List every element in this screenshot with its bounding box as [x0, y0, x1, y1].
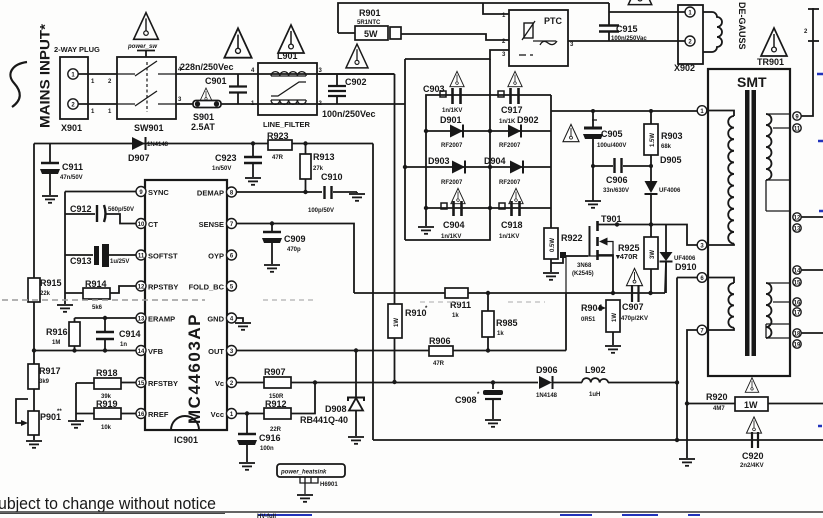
svg-text:R922: R922 [561, 233, 583, 243]
capacitor C920 2n2/4KV [740, 417, 764, 469]
capacitor C903 [423, 71, 464, 114]
warning triangle power_sw [134, 13, 159, 40]
resistor R910 1W [388, 304, 428, 384]
svg-text:D904: D904 [484, 156, 506, 166]
wire sec pin 14 stub [801, 269, 823, 271]
svg-text:HV-full: HV-full [257, 514, 276, 518]
svg-text:▾470R: ▾470R [615, 252, 638, 261]
node PTC pin1 drop [483, 3, 509, 14]
svg-text:3: 3 [570, 42, 574, 48]
transformer SMT box [708, 69, 790, 376]
svg-text:GND: GND [207, 315, 224, 324]
main current-sense bus [354, 292, 665, 294]
svg-text:C912: C912 [70, 204, 92, 214]
diode D903 [428, 156, 465, 186]
svg-text:100u/400V: 100u/400V [597, 143, 626, 149]
transformer pin 7 [697, 325, 707, 335]
ground (D908) [348, 437, 364, 444]
transformer aux winding [706, 278, 734, 331]
svg-text:RPSTBY: RPSTBY [148, 283, 178, 292]
svg-text:Vc: Vc [215, 379, 224, 388]
wire SW901 pin3 neutral [176, 103, 405, 105]
svg-text:SMT: SMT [737, 74, 767, 90]
svg-text:1n/1KV: 1n/1KV [441, 234, 461, 240]
de-gauss coil [703, 2, 747, 52]
diode D910 UF4006 [660, 225, 697, 294]
wire pin6 down [677, 277, 697, 279]
ground (C909) [264, 265, 280, 272]
svg-text:3W: 3W [650, 250, 656, 259]
svg-text:*: * [425, 306, 428, 312]
svg-text:DEMAP: DEMAP [197, 189, 224, 198]
transformer secondary winding A [766, 114, 790, 211]
capacitor C917 [498, 71, 523, 125]
svg-text:LINE_FILTER: LINE_FILTER [263, 120, 311, 129]
svg-text:47R: 47R [433, 361, 445, 367]
warning triangle (top, near X902) [628, 0, 651, 5]
transformer secondary winding B [766, 283, 790, 338]
svg-text:power_sw: power_sw [127, 44, 157, 50]
mains squiggle [10, 62, 27, 107]
resistor R925 470R 3W [615, 237, 658, 293]
capacitor C909 [262, 221, 306, 264]
svg-text:1k: 1k [452, 313, 459, 319]
svg-text:R913: R913 [313, 152, 335, 162]
svg-text:SOFTST: SOFTST [148, 252, 178, 261]
svg-text:5W: 5W [364, 29, 378, 39]
line filter L901 [251, 63, 323, 129]
svg-text:10k: 10k [101, 425, 112, 431]
svg-text:1n/1K: 1n/1K [499, 119, 516, 125]
svg-text:2-WAY PLUG: 2-WAY PLUG [54, 45, 100, 54]
wire SW901 pin4 live [176, 73, 395, 75]
connector X901 [60, 57, 88, 133]
diode D905 UF4006 [645, 155, 682, 237]
svg-text:R985: R985 [496, 318, 518, 328]
warning triangle C901 [224, 28, 251, 57]
svg-text:C923: C923 [215, 153, 237, 163]
svg-text:0R51: 0R51 [581, 317, 596, 323]
top rail to PTC [338, 3, 609, 33]
svg-text:SENSE: SENSE [199, 220, 224, 229]
svg-text:470p/2KV: 470p/2KV [621, 316, 648, 322]
svg-text:1k: 1k [497, 331, 504, 337]
svg-text:100p/50V: 100p/50V [308, 208, 334, 214]
svg-text:SYNC: SYNC [148, 188, 169, 197]
svg-text:18: 18 [794, 332, 801, 338]
wire DEMAG [237, 191, 323, 193]
svg-text:1u/25V: 1u/25V [110, 259, 129, 265]
svg-text:C908: C908 [455, 395, 477, 405]
svg-text:C918: C918 [501, 220, 523, 230]
svg-text:D905: D905 [660, 155, 682, 165]
svg-text:C903: C903 [423, 84, 445, 94]
wire diode row 1 [426, 130, 551, 132]
svg-text:RREF: RREF [148, 410, 169, 419]
svg-text:L902: L902 [585, 365, 606, 375]
svg-text:RF2007: RF2007 [499, 180, 521, 186]
svg-text:228n/250Vec: 228n/250Vec [180, 62, 234, 72]
svg-text:C902: C902 [345, 77, 367, 87]
wire SENSE to bus [237, 224, 355, 294]
svg-text:RF2007: RF2007 [441, 180, 463, 186]
transformer pin 3 [697, 240, 707, 250]
svg-text:14: 14 [794, 269, 801, 275]
svg-text:1M: 1M [52, 340, 60, 346]
svg-text:11: 11 [138, 254, 145, 260]
svg-text:L901: L901 [277, 51, 298, 61]
svg-text:R903: R903 [661, 131, 683, 141]
thermistor PTC [502, 10, 574, 66]
capacitor C923 [212, 141, 262, 177]
wire neutral vertical x405 [404, 59, 406, 240]
warning triangle L901 [278, 25, 304, 53]
wire VFB [34, 350, 137, 352]
wire R922 gate tap [551, 256, 588, 263]
svg-text:SW901: SW901 [134, 123, 164, 133]
wire X901 pin1 to SW901 [78, 73, 117, 75]
resistor R985 1k [482, 293, 518, 351]
connector X902 [674, 5, 703, 73]
svg-text:H6901: H6901 [320, 482, 338, 488]
svg-text:1.5W: 1.5W [650, 133, 656, 147]
diode D902 [499, 115, 539, 149]
svg-text:68k: 68k [661, 144, 672, 150]
svg-text:C914: C914 [119, 329, 141, 339]
resistor R916 1M [46, 318, 80, 351]
ground (C923) [245, 178, 261, 185]
svg-text:C906: C906 [606, 175, 628, 185]
wire T901 drain to transformer pin3 [617, 225, 698, 246]
svg-text:R915: R915 [40, 278, 62, 288]
wire SYNC [65, 191, 137, 193]
svg-text:12: 12 [794, 216, 801, 222]
svg-text:R917: R917 [39, 366, 61, 376]
ground (bridge) [418, 208, 434, 234]
svg-text:IC901: IC901 [174, 435, 198, 445]
svg-text:5R1NTC: 5R1NTC [357, 20, 381, 26]
svg-text:MAINS INPUT*: MAINS INPUT* [38, 23, 53, 128]
svg-text:C909: C909 [284, 234, 306, 244]
svg-text:22k: 22k [40, 291, 51, 297]
svg-text:10: 10 [138, 222, 145, 228]
svg-text:OUT: OUT [208, 347, 224, 356]
ground (heatsink) [297, 495, 313, 502]
svg-text:C913: C913 [70, 256, 92, 266]
transformer pin 1 [697, 106, 707, 116]
svg-text:C901: C901 [205, 76, 227, 86]
svg-text:MC44603AP: MC44603AP [185, 314, 204, 424]
wire R901 to PTC pin2 [401, 34, 509, 40]
svg-text:100n/250Vec: 100n/250Vec [322, 109, 376, 119]
resistor R907 150R [264, 367, 291, 400]
svg-text:R906: R906 [429, 336, 451, 346]
svg-text:CT: CT [148, 220, 158, 229]
svg-text:(K2545): (K2545) [572, 271, 594, 277]
capacitor C918 [499, 188, 523, 240]
svg-text:3N68: 3N68 [577, 263, 592, 269]
wire X901 pin2 to SW901 [78, 103, 117, 105]
svg-text:*: * [477, 392, 480, 398]
scan artifact dashed line [2, 299, 205, 301]
capacitor C911 [40, 144, 83, 196]
svg-text:C904: C904 [443, 220, 465, 230]
svg-text:D901: D901 [440, 115, 462, 125]
capacitor C906 [591, 158, 653, 194]
capacitor C901 [205, 74, 247, 104]
transformer primary winding [706, 111, 734, 246]
blue margin marks [817, 74, 823, 426]
capacitor C910 [308, 172, 357, 214]
wire OUT [237, 350, 567, 352]
bridge box top edge [426, 95, 551, 208]
transformer pin 6 [697, 273, 707, 283]
svg-text:1n/1KV: 1n/1KV [499, 234, 519, 240]
svg-text:5k6: 5k6 [92, 305, 103, 311]
ground (C908) [485, 420, 501, 427]
wire R906 to 3N68 box [565, 293, 567, 351]
resistor R911 1k [445, 288, 471, 319]
svg-text:RF2007: RF2007 [499, 143, 521, 149]
svg-text:ERAMP: ERAMP [148, 315, 175, 324]
capacitor C905 [583, 111, 626, 201]
resistor R920 4M7 1W [687, 378, 823, 412]
svg-text:C915: C915 [616, 24, 638, 34]
svg-text:UF4006: UF4006 [659, 188, 681, 194]
svg-text:12: 12 [138, 285, 145, 291]
svg-text:1n/1KV: 1n/1KV [442, 108, 462, 114]
ground (C916) [239, 463, 255, 470]
capacitor C913 1u/25V [65, 244, 137, 267]
svg-text:R916: R916 [46, 327, 68, 337]
svg-text:1W: 1W [744, 400, 758, 410]
svg-text:2: 2 [108, 79, 112, 85]
resistor R903 68k 1.5W [644, 111, 683, 155]
svg-text:C917: C917 [501, 105, 523, 115]
capacitor C916 100n [237, 411, 281, 462]
resistor R913 27k [300, 141, 335, 192]
ground (C911) [42, 196, 58, 203]
svg-text:Vcc: Vcc [211, 410, 224, 419]
resistor R906 47R [429, 336, 453, 367]
svg-text:100n/250Vac: 100n/250Vac [611, 36, 647, 42]
svg-text:RFSTBY: RFSTBY [148, 379, 178, 388]
svg-text:R918: R918 [96, 368, 118, 378]
svg-text:3: 3 [502, 52, 506, 58]
diode D906 1N4148 [536, 365, 558, 399]
capacitor C915 [599, 3, 647, 42]
svg-text:C911: C911 [62, 162, 83, 172]
wire Vc supply rail [237, 382, 265, 384]
svg-text:C907: C907 [622, 302, 644, 312]
wire sec pin to top connector [801, 8, 813, 116]
svg-text:T901: T901 [601, 214, 622, 224]
svg-text:D903: D903 [428, 156, 450, 166]
svg-text:16: 16 [794, 301, 801, 307]
resistor R912 22R [237, 380, 318, 433]
svg-text:power_heatsink: power_heatsink [280, 470, 327, 476]
svg-text:R907: R907 [264, 367, 286, 377]
svg-text:100n: 100n [260, 446, 274, 452]
box around 3N68 K2545 [566, 256, 613, 293]
bottom border line [0, 511, 823, 513]
svg-text:3k9: 3k9 [39, 379, 50, 385]
IC901 MC44603AP [136, 180, 237, 445]
svg-text:47R: 47R [272, 155, 284, 161]
svg-text:RF2007: RF2007 [441, 143, 463, 149]
svg-text:1W: 1W [394, 318, 400, 327]
svg-text:R912: R912 [265, 399, 287, 409]
warning triangle C907 [626, 268, 642, 285]
ground (IC GND pin) [235, 318, 251, 330]
wire sec pin 12 stub [801, 216, 823, 218]
ground rail (R918/R919) [75, 383, 77, 420]
bridge bottom edge [405, 59, 490, 240]
svg-text:1n/50V: 1n/50V [212, 166, 231, 172]
wire D907 line [34, 143, 373, 145]
wire pin7 down to ground [687, 330, 697, 458]
fuse S901 [191, 88, 221, 132]
wire line filter pin3 [317, 73, 395, 75]
svg-text:14: 14 [138, 349, 145, 355]
svg-text:D907: D907 [128, 153, 150, 163]
svg-text:D910: D910 [675, 262, 697, 272]
wire cap bus [426, 207, 551, 209]
svg-text:1N4148: 1N4148 [147, 142, 169, 148]
svg-text:19: 19 [794, 343, 801, 349]
svg-text:R914: R914 [85, 279, 107, 289]
wire DC+ rail to transformer pin1 [551, 110, 698, 112]
heatsink label power_heatsink [277, 464, 345, 494]
ground (R922) [543, 273, 559, 280]
svg-text:DE-GAUSS: DE-GAUSS [737, 2, 747, 50]
resistor R915 22k [28, 278, 62, 366]
svg-text:OYP: OYP [208, 252, 224, 261]
svg-text:ubject to change without notic: ubject to change without notice [0, 494, 216, 513]
svg-text:D908: D908 [325, 404, 347, 414]
ground (pin7 rail) [679, 459, 695, 466]
resistor R918 39k [76, 368, 137, 400]
switch SW901 [117, 51, 176, 134]
svg-text:1: 1 [108, 109, 112, 115]
svg-text:C916: C916 [259, 433, 281, 443]
svg-text:1n: 1n [120, 342, 127, 348]
svg-text:1N4148: 1N4148 [536, 393, 558, 399]
svg-text:C910: C910 [321, 172, 343, 182]
svg-text:PTC: PTC [544, 16, 563, 26]
diode D904 [484, 156, 523, 186]
svg-text:S901: S901 [193, 112, 214, 122]
ground rail x65 [64, 192, 66, 294]
svg-text:4M7: 4M7 [713, 406, 725, 412]
bridge right edge [550, 95, 552, 228]
resistor R914 5k6 [65, 279, 137, 311]
svg-text:VFB: VFB [148, 347, 164, 356]
transformer right pins [793, 112, 801, 349]
svg-text:13: 13 [794, 227, 801, 233]
svg-text:C920: C920 [742, 451, 764, 461]
svg-text:560p/50V: 560p/50V [108, 207, 134, 213]
wire live down to R910 [394, 74, 396, 304]
svg-text:13: 13 [138, 317, 145, 323]
svg-text:0.5W: 0.5W [550, 238, 556, 252]
svg-text:D906: D906 [536, 365, 558, 375]
resistor R923 47R [268, 140, 292, 161]
svg-text:11: 11 [794, 127, 801, 133]
svg-text:16: 16 [138, 412, 145, 418]
svg-text:FOLD_BC: FOLD_BC [189, 283, 225, 292]
svg-text:X901: X901 [61, 123, 82, 133]
svg-text:1W: 1W [612, 313, 618, 322]
svg-text:R920: R920 [706, 392, 728, 402]
ground (C910) [349, 194, 365, 201]
svg-text:3: 3 [178, 97, 182, 103]
inductor L902 1uH [582, 365, 608, 398]
svg-text:R910: R910 [405, 308, 427, 318]
svg-text:RB441Q-40: RB441Q-40 [300, 415, 348, 425]
svg-text:1: 1 [91, 109, 95, 115]
svg-text:D902: D902 [517, 115, 539, 125]
svg-text:R901: R901 [359, 8, 381, 18]
ground (P901) [26, 441, 42, 448]
svg-text:2.5AT: 2.5AT [191, 122, 215, 132]
svg-text:47n/50V: 47n/50V [60, 175, 83, 181]
svg-text:17: 17 [794, 311, 801, 317]
wire ERAMP [75, 317, 137, 319]
svg-text:2: 2 [804, 29, 808, 35]
right pins [227, 187, 237, 197]
long vertical x373 [372, 144, 374, 441]
resistor R919 10k [76, 399, 137, 431]
resistor R917 3k9 [28, 364, 61, 411]
svg-text:**: ** [57, 409, 62, 415]
svg-text:2n2/4KV: 2n2/4KV [740, 463, 764, 469]
svg-text:1: 1 [91, 79, 95, 85]
ground (R914) [57, 293, 73, 312]
svg-text:15: 15 [794, 281, 801, 287]
capacitor C907 [621, 285, 648, 322]
wire diode row 2 [405, 166, 551, 168]
ground (R904) [605, 346, 621, 353]
wire neutral to PTC pin3 [405, 50, 509, 59]
svg-text:R911: R911 [450, 300, 471, 310]
svg-text:X902: X902 [674, 63, 695, 73]
potentiometer P901 [16, 399, 62, 440]
transistor T901 [572, 214, 622, 293]
bottom bus y440 [373, 439, 823, 441]
warning triangle C905 [563, 124, 579, 141]
wire X902 pin1 [609, 11, 685, 13]
svg-text:C905: C905 [601, 129, 623, 139]
resistor R904 0R51 1W [581, 300, 620, 345]
resistor R922 0.5W [544, 228, 583, 272]
svg-text:R919: R919 [96, 399, 118, 409]
capacitor C902 [328, 74, 367, 104]
wire PTC pin3 to X902 [568, 40, 685, 42]
svg-text:15: 15 [138, 381, 145, 387]
svg-text:470p: 470p [287, 247, 301, 253]
svg-text:1uH: 1uH [589, 392, 600, 398]
resistor R901 5W SR1NTC [338, 8, 401, 40]
capacitor C912 560p/50V [65, 204, 137, 224]
capacitor C908 [455, 380, 503, 419]
svg-text:TR901: TR901 [757, 57, 784, 67]
wire sec pin 18 stub [801, 332, 823, 334]
capacitor C914 1n [96, 316, 141, 351]
warning triangle TR901 [761, 28, 787, 56]
diode D908 RB441Q-40 [300, 351, 364, 437]
warning triangle C902 [346, 44, 368, 68]
